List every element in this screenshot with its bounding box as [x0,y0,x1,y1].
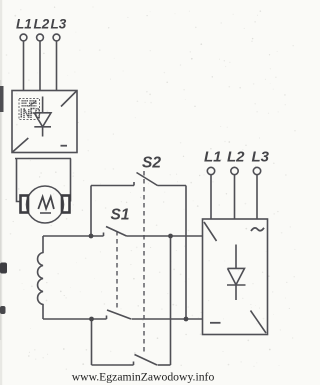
switch S2 contact tick [133,182,135,186]
wire L1 to rectifier 2 [210,175,212,219]
terminal L3 (top-left) [53,34,60,41]
rectifier U2 diagonal segment lower-right [251,311,267,334]
mechanical link S2 dashed [143,171,145,352]
svg-text:L2: L2 [34,17,50,32]
M letter of motor [38,197,54,213]
svg-text:L2: L2 [227,149,245,166]
motor M armature circle [27,186,64,223]
wire coil top to S1 [43,235,104,237]
switch S1b contact tick [106,316,108,320]
svg-text:S1: S1 [111,207,130,224]
watermark INFO glyphs [21,109,39,119]
rectifier bridge U2 box [203,219,268,335]
wire S2 branch horizontal [91,185,134,187]
wire S2 corner down to node B [185,186,187,320]
switch S1 blade [106,227,127,237]
svg-text:L3: L3 [51,17,67,32]
wire bottom switch S2b feed [92,364,134,366]
switch S2b blade [135,355,158,366]
wire L1 to rectifier 1 [23,41,25,91]
svg-text:L3: L3 [252,149,270,166]
wire S2b to node C [158,364,171,366]
terminal L2 (right) [231,167,238,174]
svg-text:www.EgzaminZawodowy.info: www.EgzaminZawodowy.info [72,371,215,384]
wire S1b to rectifier 2 [132,318,203,320]
junction node A [89,234,94,239]
brush right of motor [62,196,70,213]
terminal L2 (top-left) [37,34,44,41]
wire node A up branch [90,186,92,237]
switch S2 blade [137,173,158,186]
watermark EZ glyphs [22,101,38,106]
switch S2b contact tick [133,362,135,366]
svg-text:L1: L1 [204,149,222,166]
scan artifact bar top-left edge [0,86,4,112]
wire node C down branch [170,236,172,365]
mechanical link S1 dashed [116,231,118,309]
scan artifact blob mid-left edge [0,263,7,274]
wire S1 to rectifier 2 [127,235,203,237]
wire U1 to left brush [17,159,21,202]
scan artifact blob lower-left edge [0,306,6,314]
watermark dashed box EZ INFO [19,99,40,120]
rectifier U1 diagonal segment upper-right [61,91,77,107]
diode symbol inside U2 [227,245,246,301]
AC tilde of U2 [251,228,264,231]
wire L2 to rectifier 2 [234,175,236,219]
brush left of motor [21,196,29,213]
DC output bar under U1 [15,158,71,160]
wire S2 to corner [158,185,187,187]
junction node B [184,317,189,322]
minus sign of U1 [61,145,68,147]
wire L3 to rectifier 1 [56,41,58,91]
rectifier bridge U1 box [12,91,77,153]
wire L3 to rectifier 2 [256,175,258,219]
wire node D down branch [91,319,93,365]
wire U1 to right brush [70,159,72,202]
terminal L1 (top-left) [20,34,27,41]
switch S1 contact tick [103,233,105,237]
terminal L3 (right) [253,167,260,174]
junction node D [89,317,94,322]
svg-text:L1: L1 [16,17,32,32]
minus sign of U2 [210,322,221,324]
rectifier U2 diagonal segment upper-left [204,222,217,241]
rectifier U1 diagonal segment lower-left [13,138,29,152]
wire L2 to rectifier 1 [39,41,41,91]
diode symbol inside U1 [34,97,51,137]
svg-text:S2: S2 [142,155,161,172]
coil L (field winding) [38,236,43,319]
terminal L1 (right) [207,167,214,174]
wire coil bottom [43,318,107,320]
switch S1b blade [107,310,131,319]
junction node C [168,234,173,239]
